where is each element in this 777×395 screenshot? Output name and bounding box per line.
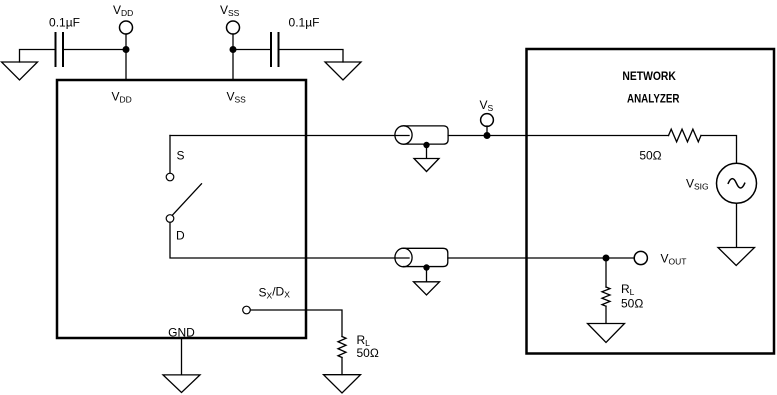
- wire junction to RL (NA): [605, 258, 607, 287]
- svg-text:NETWORK: NETWORK: [622, 69, 676, 83]
- node VSS junction: [230, 46, 237, 53]
- switch D pole: [166, 215, 174, 223]
- wire switch S drop: [169, 136, 171, 174]
- wire VSIG to ground: [736, 203, 738, 247]
- svg-text:D: D: [176, 229, 185, 243]
- ground (below GND pin): [163, 375, 200, 393]
- wire GND pin to ground: [181, 338, 183, 375]
- source VSIG: [717, 163, 757, 203]
- wire coax 2 shield to ground: [426, 268, 428, 282]
- node VS junction: [484, 132, 491, 139]
- wire VSS node to box: [232, 50, 234, 79]
- capacitor C1 0.1uF: [56, 33, 64, 66]
- ground (top-right, for C2): [325, 62, 361, 80]
- svg-text:0.1µF: 0.1µF: [49, 16, 80, 30]
- svg-text:S: S: [177, 149, 185, 163]
- node VDD junction: [123, 46, 130, 53]
- DUT box: [57, 80, 306, 338]
- terminal VDD: [120, 21, 133, 46]
- ground (below RL bottom middle): [324, 375, 361, 393]
- switch S pole: [166, 173, 174, 181]
- wire C2 to ground: [279, 50, 344, 63]
- wire RL to ground: [341, 358, 343, 375]
- svg-text:50Ω: 50Ω: [621, 297, 643, 311]
- wire resistor to VSIG: [701, 136, 737, 164]
- wire C1 to VDD node: [63, 49, 126, 51]
- wire VDD node to box: [125, 50, 127, 79]
- terminal VS: [481, 114, 494, 136]
- svg-text:0.1µF: 0.1µF: [289, 16, 320, 30]
- wire bottom line: switch D to coax 2: [170, 222, 409, 258]
- coax cable 1 (top): [395, 126, 448, 144]
- resistor RL (bottom middle): [338, 337, 346, 358]
- node VOUT junction: [603, 255, 610, 262]
- wire SX/DX to RL: [250, 310, 342, 337]
- svg-text:ANALYZER: ANALYZER: [627, 92, 680, 106]
- resistor 50 ohm (source): [669, 129, 701, 142]
- wire RL to ground (NA): [605, 306, 607, 323]
- wire coax 2 to VOUT junction: [448, 257, 606, 259]
- resistor RL (NA box): [602, 287, 610, 306]
- wire NA box edge to 50 ohm resistor: [527, 135, 669, 137]
- terminal VOUT: [634, 251, 647, 264]
- wire junction to VOUT terminal: [606, 257, 634, 259]
- ground (below RL in NA box): [588, 324, 625, 343]
- ground (top-left, for C1): [2, 50, 56, 81]
- node on coax 1 shield: [423, 142, 429, 148]
- ground (below VSIG): [718, 248, 755, 266]
- ground (coax 1, small): [414, 159, 439, 172]
- switch blade: [173, 184, 202, 215]
- ground (coax 2, small): [414, 282, 440, 295]
- terminal SX/DX: [243, 306, 251, 314]
- svg-text:50Ω: 50Ω: [357, 346, 379, 360]
- coax cable 2 (bottom): [395, 248, 448, 267]
- capacitor C2 0.1uF: [271, 33, 279, 66]
- wire VSS node to C2: [233, 49, 271, 51]
- wire top line: switch S to coax 1: [170, 135, 409, 137]
- svg-text:50Ω: 50Ω: [639, 149, 661, 163]
- wire coax 1 shield to ground: [426, 145, 428, 158]
- terminal VSS: [227, 21, 240, 46]
- node on coax 2 shield: [423, 264, 429, 270]
- wire coax 1 to VS node: [448, 135, 526, 137]
- NETWORK ANALYZER box: [527, 49, 775, 354]
